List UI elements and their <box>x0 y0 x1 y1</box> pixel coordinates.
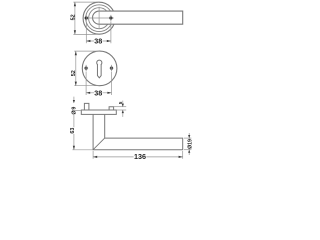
dim 38 (fig2) extension lines <box>85 72 87 95</box>
dim 52 (fig2) dimension line <box>75 51 77 86</box>
dim Ø19 extension lines <box>184 137 191 139</box>
svg-text:5: 5 <box>118 101 124 104</box>
dim 9 arrow (above spindle boss) <box>73 97 75 101</box>
dim 52 (fig1) dimension line <box>74 2 76 34</box>
miter diagonal <box>93 138 105 150</box>
svg-text:38: 38 <box>94 36 102 45</box>
dim 38 (fig1) extension lines <box>85 22 87 44</box>
screw dot left <box>85 16 88 19</box>
svg-text:38: 38 <box>94 88 102 97</box>
screw dot right (fig2) <box>110 67 113 70</box>
horizontal centerline <box>84 17 114 19</box>
svg-text:136: 136 <box>134 152 146 160</box>
dim 38 (fig1) label <box>94 38 102 44</box>
rose outer circle <box>83 2 115 34</box>
svg-text:63: 63 <box>70 128 76 134</box>
escutcheon outer circle <box>82 51 117 86</box>
dim 136 extension lines <box>92 151 94 159</box>
dim 136 label <box>134 154 147 160</box>
neck and grip bar outline <box>93 114 183 149</box>
svg-text:52: 52 <box>71 70 77 76</box>
svg-text:Ø19: Ø19 <box>187 139 193 149</box>
dim 38 (fig1) dimension line <box>86 40 111 42</box>
rose inner ring <box>86 5 113 32</box>
dim 5 extension lines <box>114 106 127 108</box>
screw dot left (fig2) <box>85 67 88 70</box>
screw dot right <box>109 16 112 19</box>
lever grip (stadium shape, white fill over circles) <box>93 11 183 24</box>
bar bottom extension to left <box>72 149 93 151</box>
dim 52 (fig2) extension lines <box>74 50 99 52</box>
dim 136 dimension line <box>93 156 183 158</box>
screw stub (right, short) <box>109 107 114 110</box>
plate top extension line (left) <box>72 109 81 111</box>
dim 5 arrows (outside) <box>122 101 124 107</box>
dim 52 (fig1) extension lines <box>73 1 99 3</box>
dim Ø19 label <box>187 140 192 148</box>
spindle boss stub (left, tall) <box>84 103 89 110</box>
rose plate (side) <box>81 110 116 114</box>
neck collar circle <box>89 8 110 29</box>
svg-text:52: 52 <box>71 14 77 20</box>
dim 63 dimension line <box>73 115 75 127</box>
dim 38 (fig2) dimension line <box>86 92 111 94</box>
dim 38 (fig2) label <box>94 90 102 96</box>
dim Ø19 arrows (outside) <box>188 133 190 138</box>
vertical centerline <box>98 7 100 29</box>
keyhole <box>97 60 102 65</box>
